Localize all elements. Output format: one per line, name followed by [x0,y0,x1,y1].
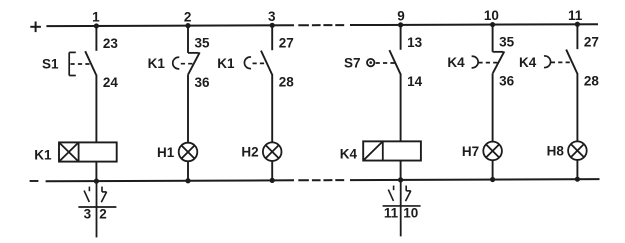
junction on bottom rail at rung 9 [398,177,403,182]
cross-reference rung number 3 [84,207,92,222]
mini NO-contact glyph (left, plain) [84,187,89,202]
wire: rung 1 from load to bottom rail [95,162,97,182]
svg-text:2: 2 [99,207,107,222]
label H1 (lamp designator) [157,145,175,160]
wire: rung 3 from contact to load [271,74,273,142]
svg-text:36: 36 [195,75,211,90]
lamp H7 (indicator light) [483,142,502,161]
svg-text:H8: H8 [547,144,565,159]
pin 13 (upper contact terminal) [407,35,423,50]
pin 35 (upper contact terminal) [499,35,515,50]
wire: M bottom supply rail, left solid segment [46,179,294,182]
wire: rung 1 from top rail to contact [95,26,97,51]
junction on bottom rail at rung 11 [575,177,580,182]
relay coil K4 (electromechanical drive) [363,141,421,160]
junction on bottom rail at rung 10 [490,177,495,182]
svg-text:1: 1 [92,10,100,25]
wire: rung 10 from top rail to contact [492,25,494,52]
wire: M bottom supply rail, dashed break [298,179,344,181]
svg-text:27: 27 [279,35,294,50]
node 2 (junction on top rail) [184,9,192,28]
wire: rung 10 from load to bottom rail [492,160,494,179]
wire: rung 11 from contact to load [576,73,578,141]
wire: rung 11 from top rail to contact [576,24,578,49]
wire: L+ top supply rail, dashed break [298,24,344,26]
lamp H1 (indicator light) [179,143,198,162]
cross-reference table rule [78,206,116,208]
cross-reference rung number 2 [99,207,107,222]
node 11 (junction on top rail) [568,8,583,27]
contact K1 rung 3 (NO make contact, relay contact of K1) [244,51,272,75]
svg-text:9: 9 [397,9,405,24]
wire: rung 1 from contact to load [95,75,97,143]
svg-text:2: 2 [184,9,192,24]
contact S7 rung 9 (NO make contact, pushbutton) [367,50,400,74]
pin 24 (lower contact terminal) [103,75,119,90]
contact K4 rung 11 (NO make contact, relay contact of K4) [544,50,577,74]
svg-text:K4: K4 [447,55,465,70]
svg-text:3: 3 [268,9,276,24]
wire: rung 9 from top rail to contact [400,25,402,50]
svg-text:H7: H7 [462,144,479,159]
svg-text:28: 28 [279,75,295,90]
svg-text:23: 23 [103,36,119,51]
pin 35 (upper contact terminal) [195,36,211,51]
node 9 (junction on top rail) [397,9,405,28]
svg-text:K4: K4 [519,55,537,70]
svg-text:S7: S7 [344,55,361,70]
pin 14 (lower contact terminal) [407,74,423,89]
pin 36 (lower contact terminal) [195,75,211,90]
svg-text:11: 11 [568,8,583,23]
wire: L+ top supply rail, right solid segment [350,23,598,26]
svg-text:28: 28 [584,73,600,88]
junction on bottom rail at rung 2 [185,178,190,183]
pin 28 (lower contact terminal) [279,75,295,90]
label K1 (contact designator) [217,56,235,71]
svg-text:H1: H1 [157,145,175,160]
wire: rung 11 from load to bottom rail [576,160,578,179]
label H8 (lamp designator) [547,144,565,159]
label K4 (contact designator) [447,55,465,70]
wire: rung 2 from top rail to contact [187,26,189,53]
cross-reference rung number 11 [384,206,399,221]
svg-text:36: 36 [499,74,515,89]
label H2 (lamp designator) [241,145,258,160]
label S7 (contact designator) [344,55,361,70]
mini NO-contact glyph (right, with bar) [101,187,106,203]
pin 23 (upper contact terminal) [103,36,119,51]
minus terminal (-) of supply [30,180,39,182]
wire: rung 9 from load to bottom rail [400,161,402,180]
mini NO-contact glyph (right, with bar) [406,186,411,202]
svg-text:10: 10 [403,206,418,221]
label S1 (contact designator) [42,56,59,71]
svg-text:K4: K4 [340,146,358,161]
pin 27 (upper contact terminal) [279,35,294,50]
svg-text:K1: K1 [217,56,235,71]
pin 28 (lower contact terminal) [584,73,600,88]
svg-text:27: 27 [584,34,599,49]
junction on bottom rail at rung 3 [270,178,275,183]
node 10 (junction on top rail) [484,8,499,27]
wire: rung 2 from load to bottom rail [187,161,189,180]
svg-text:13: 13 [407,35,423,50]
relay coil K1 (electromechanical drive) [59,142,117,161]
label K1 (contact designator) [148,56,166,71]
lamp H8 (indicator light) [568,141,587,160]
svg-text:35: 35 [499,35,515,50]
svg-text:14: 14 [407,74,423,89]
cross-reference rung number 10 [403,206,418,221]
svg-text:S1: S1 [42,56,59,71]
wire: rung 10 from contact to load [492,73,494,141]
label K4 (contact designator) [519,55,537,70]
svg-text:10: 10 [484,8,499,23]
label K4 (coil designator) [340,146,358,161]
contact cross-reference line under coil K4 [400,180,402,236]
lamp H2 (indicator light) [263,142,282,161]
svg-text:35: 35 [195,36,211,51]
node 3 (junction on top rail) [268,9,276,28]
wire: rung 3 from top rail to contact [271,25,273,50]
mini NO-contact glyph (left, plain) [388,186,393,201]
label K1 (coil designator) [34,147,52,162]
wire: M bottom supply rail, right solid segment [350,178,600,181]
svg-text:3: 3 [84,207,92,222]
contact S1 rung 1 (NO make contact, pushbutton) [69,51,96,75]
contact cross-reference line under coil K1 [96,181,98,237]
svg-text:24: 24 [103,75,119,90]
pin 27 (upper contact terminal) [584,34,599,49]
cross-reference table rule [383,205,421,207]
svg-text:K1: K1 [148,56,166,71]
svg-text:11: 11 [384,206,399,221]
pin 36 (lower contact terminal) [499,74,515,89]
contact K4 rung 10 (NO make contact, relay contact of K4) [472,51,505,73]
svg-text:H2: H2 [241,145,258,160]
wire: rung 2 from contact to load [187,74,189,142]
contact K1 rung 2 (NO make contact, relay contact of K1) [173,52,200,74]
wire: rung 3 from load to bottom rail [271,161,273,180]
junction on bottom rail at rung 1 [94,179,99,184]
svg-text:K1: K1 [34,147,52,162]
node 1 (junction on top rail) [92,10,100,29]
wire: rung 9 from contact to load [400,74,402,142]
plus terminal (+) of supply [30,22,41,33]
wire: L+ top supply rail, left solid segment [46,24,294,27]
label H7 (lamp designator) [462,144,479,159]
